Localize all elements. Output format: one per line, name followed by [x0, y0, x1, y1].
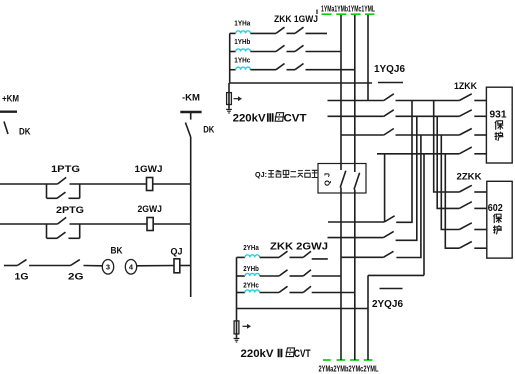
- wire elbow from YML to riser: [368, 274, 424, 276]
- wire seg phase b: [287, 51, 296, 53]
- contact 1PTG parallel branch bottom wire: [47, 197, 58, 199]
- wire row2 seg2: [396, 115, 460, 117]
- contact 1PTG parallel branch left drop: [46, 184, 48, 198]
- fuse 2RD body: [234, 321, 239, 334]
- tick mark left of 1YM labels: [316, 10, 318, 15]
- minibus 2YMa dash (bottom, green): [323, 359, 331, 361]
- svg-text:QJ: QJ: [171, 247, 183, 258]
- switch 1G blade: [17, 260, 26, 266]
- contact ZKK blade (phase b): [276, 45, 285, 51]
- riser wire to row4: [423, 154, 425, 276]
- contact 2ZKK blade row2: [459, 202, 472, 209]
- fuse stem bottom: [228, 105, 230, 109]
- drop row3 to 602 feed 3: [441, 135, 459, 230]
- svg-text:QJ:: QJ:: [255, 170, 267, 179]
- wire row1 (1YM to protections): [328, 100, 384, 102]
- bus line YMc lower part: [354, 190, 356, 361]
- terminal circle 4 of BK: [125, 260, 136, 275]
- contact ZKK blade (phase a): [276, 27, 285, 33]
- wire row2 into 931 box: [474, 115, 486, 117]
- svg-text:1YQJ6: 1YQJ6: [374, 63, 405, 75]
- svg-text:2YHa: 2YHa: [243, 245, 259, 252]
- svg-text:Ⅱ: Ⅱ: [277, 348, 284, 360]
- svg-text:2ZKK: 2ZKK: [457, 172, 483, 182]
- contact 1ZKK blade row1: [459, 94, 472, 101]
- minibus 2YMb dash (bottom, green): [337, 359, 346, 361]
- svg-text:2GWJ: 2GWJ: [138, 204, 163, 215]
- drop wire row4 to midrow A: [384, 154, 386, 222]
- wire to winding 1YHa: [230, 32, 236, 34]
- wire row 2YHb: [260, 275, 279, 277]
- positive rail bar +KM: [0, 110, 17, 112]
- winding 1YHb coil: [236, 49, 251, 52]
- underline dash of 1YQJ6: [378, 82, 403, 84]
- disconnect switch DK (right) blade: [185, 123, 190, 138]
- wire seg phase a2: [290, 256, 304, 258]
- stub below -KM bar: [190, 112, 192, 120]
- wire to winding 2YHa: [237, 256, 245, 258]
- wire seg phase c: [287, 69, 296, 71]
- contact 2PTG blade: [58, 217, 67, 224]
- wire midrow C right + riser to row3: [396, 135, 421, 258]
- protection box 602: [487, 181, 512, 258]
- tag arrow beside top fuse: [234, 98, 239, 100]
- wire row3: [341, 134, 384, 136]
- svg-text:2YHb: 2YHb: [243, 266, 258, 273]
- svg-text:3: 3: [106, 263, 110, 272]
- svg-text:220kV: 220kV: [241, 348, 275, 360]
- contact 2ZKK blade row4: [459, 242, 472, 249]
- minibus 1YMa dash (top, green): [322, 13, 332, 15]
- svg-text:ZKK 1GWJ: ZKK 1GWJ: [274, 14, 318, 25]
- wire row2 mid segment: [70, 223, 148, 225]
- drop row4 to 602 feed 4: [445, 154, 459, 248]
- underline dash of 2YQJ6: [380, 288, 403, 290]
- contact 1GWJ blade (phase a): [295, 27, 304, 33]
- wire row3 start: [4, 265, 17, 267]
- contact blade midrow C: [383, 251, 393, 257]
- contact 2PTG parallel branch bottom wire: [47, 237, 58, 239]
- svg-text:1YHa: 1YHa: [234, 20, 250, 27]
- contact 1YQJ6 blade row1: [384, 94, 394, 101]
- wire row2: [328, 115, 384, 117]
- neutral return wire bottom block: [237, 308, 369, 310]
- ground (bottom CVT): [234, 337, 240, 339]
- minibus 1YMc dash (top, green): [351, 13, 361, 15]
- contact 2ZKK blade row1: [459, 185, 472, 192]
- winding 2YHc coil: [245, 290, 260, 293]
- contact 2PTG parallel branch left drop: [46, 224, 48, 238]
- svg-text:2PTG: 2PTG: [56, 205, 84, 216]
- wire row4 into 931 box: [474, 153, 486, 155]
- svg-text:DK: DK: [19, 127, 31, 137]
- wire seg phase b2: [290, 275, 304, 277]
- svg-text:1YMa1YMb1YMc1YML: 1YMa1YMb1YMc1YML: [321, 4, 375, 14]
- wire row 2YHa: [260, 256, 279, 258]
- bus line YMb upper part: [340, 15, 342, 170]
- svg-text:J: J: [323, 173, 332, 177]
- contact 1GWJ blade (phase c): [295, 64, 304, 70]
- svg-text:2YQJ6: 2YQJ6: [372, 299, 403, 310]
- svg-text:CVT: CVT: [294, 348, 311, 360]
- minibus 1YMb dash (top, green): [336, 13, 346, 15]
- wire row1 left segment: [0, 183, 58, 185]
- wire seg phase a: [287, 32, 296, 34]
- contact 2GWJ blade (phase c2): [303, 286, 311, 292]
- wire to winding 2YHb: [237, 275, 245, 277]
- svg-text:1G: 1G: [15, 272, 29, 283]
- contact ZKK blade (phase c): [276, 64, 285, 70]
- contact 1YQJ6 blade row2: [384, 110, 394, 117]
- wire midrow B right + riser to row2: [396, 116, 417, 240]
- contact ZKK blade (phase b2): [279, 270, 288, 276]
- bus line YMb lower part: [340, 188, 342, 361]
- fuse stem bottom (bottom block): [236, 334, 238, 338]
- contact 1GWJ blade (phase b): [295, 45, 304, 51]
- neutral return wire top block: [230, 82, 372, 84]
- wire to winding 1YHb: [230, 51, 236, 53]
- minibus 2YMc dash (bottom, green): [350, 359, 359, 361]
- svg-text:931: 931: [490, 109, 507, 121]
- wire mid row C (y257.3): [341, 256, 383, 258]
- wire row2 left segment: [0, 223, 58, 225]
- contact 2ZKK blade row3: [459, 223, 472, 230]
- svg-text:2YMa2YMb2YMc2YML: 2YMa2YMb2YMc2YML: [319, 363, 379, 373]
- relay coil 2GWJ: [147, 218, 153, 231]
- PT winding common vertical (220kV III bus): [229, 33, 231, 83]
- contact 2GWJ blade (phase a2): [303, 251, 311, 257]
- wire into 602 box row4: [474, 247, 487, 249]
- contact 2PTG parallel branch blade: [57, 232, 66, 238]
- wire row2 right segment: [153, 223, 191, 225]
- svg-text:ZKK 2GWJ: ZKK 2GWJ: [270, 241, 328, 252]
- contact 1ZKK blade row4: [459, 147, 472, 154]
- switching relay box QJ: [318, 164, 366, 194]
- minibus 2YML dash (bottom, green): [364, 359, 373, 361]
- wire row3 into 931 box: [474, 134, 486, 136]
- contact 1PTG parallel branch bottom wire 2: [69, 197, 80, 199]
- protection box 931: [486, 87, 512, 163]
- svg-text:602: 602: [488, 202, 503, 214]
- label hu (602 box): [493, 225, 502, 234]
- svg-text:2G: 2G: [68, 272, 84, 283]
- wire row3 end: [180, 265, 191, 267]
- svg-text:4: 4: [129, 263, 134, 272]
- contact 1ZKK blade row2: [459, 110, 472, 117]
- fuse stem top (bottom block): [236, 309, 238, 321]
- drop row1 to 602 feed 1: [434, 101, 460, 193]
- wire row3 seg2: [396, 134, 460, 136]
- contact 2PTG parallel branch right riser: [79, 224, 81, 238]
- contact 1PTG parallel branch right riser: [79, 184, 81, 198]
- wire phase b to bus 1YMb: [306, 51, 342, 53]
- wire into 602 box row3: [474, 229, 487, 231]
- wire row3 seg2: [29, 265, 70, 267]
- wire row 1YHb: [250, 51, 276, 53]
- svg-text:220kV: 220kV: [233, 113, 267, 125]
- winding 1YHa coil: [236, 31, 251, 34]
- wire row3 seg3: [84, 265, 103, 267]
- label hu (931 box): [494, 132, 503, 141]
- wire phase c2 to bus 2YMc: [312, 292, 355, 294]
- winding 1YHc coil: [236, 67, 251, 70]
- minibus 1YML dash (top, green): [365, 13, 374, 15]
- contact 1ZKK blade row3: [459, 129, 472, 136]
- relay coil QJ: [174, 259, 180, 273]
- contact 2GWJ blade (phase b2): [303, 270, 311, 276]
- contact ZKK blade (phase c2): [279, 286, 288, 292]
- wire row 1YHc: [250, 69, 276, 71]
- contact 1YQJ6 blade row3: [384, 129, 394, 136]
- wire to winding 1YHc: [230, 69, 236, 71]
- PT winding common vertical (220kV II bus): [236, 257, 238, 308]
- fuse 2RD inner wire: [236, 321, 238, 334]
- svg-text:+KM: +KM: [2, 94, 19, 105]
- negative rail wire: [190, 137, 192, 297]
- contact 2YQJ6-group blade midrow A: [384, 216, 394, 222]
- svg-text:1ZKK: 1ZKK: [454, 81, 477, 91]
- wire phase a2 stub: [312, 258, 328, 260]
- fuse 1RD inner wire: [228, 93, 230, 105]
- wire phase c to bus 1YMc: [306, 69, 355, 71]
- tag arrow beside bottom fuse: [243, 325, 248, 327]
- bus line YML upper part: [367, 15, 369, 101]
- svg-text:Ⅲ: Ⅲ: [266, 113, 275, 125]
- contact blade midrow B: [383, 231, 393, 237]
- drop row2 to 602 feed 2: [437, 116, 459, 208]
- svg-text:1PTG: 1PTG: [51, 164, 80, 175]
- wire row1 right segment: [153, 183, 191, 185]
- winding 2YHa coil: [245, 255, 260, 258]
- wire midrow A right + riser to row1: [396, 101, 412, 223]
- wire row4 stub: [377, 153, 459, 155]
- fuse stem top: [228, 83, 230, 93]
- wire phase b2 to bus 2YMb: [312, 275, 341, 277]
- svg-text:CVT: CVT: [284, 113, 307, 125]
- wire phase a to stub end: [306, 32, 328, 34]
- wire mid row A (y222): [328, 221, 384, 223]
- bus line YML lower part: [367, 275, 369, 360]
- wire row3 seg5: [137, 265, 174, 267]
- contact 1PTG parallel branch blade: [57, 192, 66, 198]
- wire mid row B (y236.5): [328, 237, 384, 239]
- svg-text:1YHc: 1YHc: [234, 58, 250, 65]
- contact 1PTG blade: [58, 177, 67, 184]
- wire into 602 box row1: [474, 191, 487, 193]
- svg-text:-KM: -KM: [182, 92, 200, 103]
- wire row1 seg2: [396, 100, 460, 102]
- relay coil 1GWJ: [147, 178, 153, 191]
- contact QJ blade on bus YMb: [340, 171, 346, 188]
- switch 2G blade: [71, 260, 80, 266]
- svg-text:1GWJ: 1GWJ: [135, 164, 163, 175]
- wire into 602 box row2: [474, 207, 487, 209]
- winding 2YHb coil: [245, 273, 260, 276]
- disconnect switch DK (left) blade: [4, 122, 8, 135]
- svg-text:BK: BK: [111, 246, 123, 257]
- svg-text:Q: Q: [323, 180, 332, 186]
- contact 2PTG parallel branch bottom wire 2: [69, 237, 80, 239]
- fuse 1RD body: [227, 93, 232, 105]
- ground (top CVT): [226, 108, 232, 110]
- terminal circle 3 of BK: [102, 260, 113, 275]
- wire row1 mid segment: [70, 183, 147, 185]
- label bao (602 box): [493, 214, 502, 223]
- wire row1 into 931 box: [474, 100, 486, 102]
- svg-text:DK: DK: [203, 125, 214, 135]
- negative rail bar -KM: [180, 111, 201, 113]
- wire to winding 2YHc: [237, 292, 245, 294]
- wire row 1YHa: [250, 32, 276, 34]
- svg-text:2YHc: 2YHc: [243, 283, 259, 290]
- contact QJ blade on bus YMc: [354, 173, 360, 190]
- label bao (931 box): [495, 120, 504, 129]
- bus line YMc upper part: [354, 15, 356, 172]
- svg-text:1YHb: 1YHb: [234, 39, 250, 46]
- contact ZKK blade (phase a2): [279, 251, 288, 257]
- wire seg phase c2: [290, 292, 304, 294]
- wire row 2YHc: [260, 292, 279, 294]
